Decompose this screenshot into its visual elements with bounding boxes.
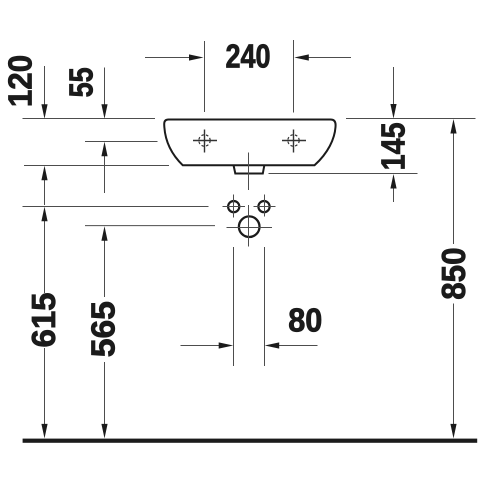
svg-text:240: 240 xyxy=(225,39,270,75)
dimension text 615 xyxy=(25,292,62,347)
drain hole crosshair xyxy=(227,205,273,247)
120 dimension stem lower with up arrow xyxy=(41,166,47,205)
dimension text 120 xyxy=(2,55,39,107)
basin outline (side view) xyxy=(164,120,335,166)
drain hole circle xyxy=(239,216,260,237)
565 dimension stem with down arrow at floor xyxy=(101,362,107,438)
565 dimension stem with up arrow xyxy=(101,226,107,297)
supply hole right circle xyxy=(258,201,269,212)
55 dimension stem upper with down arrow xyxy=(101,68,107,119)
850 dimension stem with up arrow at rim xyxy=(450,119,456,244)
80 extension line left xyxy=(233,247,235,366)
dimension text 565 xyxy=(86,301,123,357)
mounting hole left (crosshair + dashed circle) xyxy=(193,130,217,153)
reference line rim level right xyxy=(346,118,476,120)
svg-text:615: 615 xyxy=(25,292,62,347)
svg-text:120: 120 xyxy=(2,55,39,107)
drain spigot below basin xyxy=(234,166,265,174)
240 extension line right xyxy=(293,40,295,113)
dimension text 240 xyxy=(225,39,270,75)
dimension text 850 xyxy=(435,247,472,299)
55 dimension stem lower with up arrow xyxy=(101,142,107,193)
80 dimension line right with arrow xyxy=(265,342,318,348)
reference line supply holes level xyxy=(23,206,209,208)
svg-text:80: 80 xyxy=(288,302,322,339)
850 dimension stem with down arrow at floor xyxy=(450,304,456,439)
dimension text 55 xyxy=(64,67,100,97)
615 dimension stem with down arrow at floor xyxy=(41,348,47,438)
615 dimension stem with up arrow xyxy=(41,207,47,293)
floor line xyxy=(23,439,478,443)
120 dimension stem upper with down arrow xyxy=(41,66,47,119)
centerline through drain xyxy=(248,153,250,191)
80 extension line right xyxy=(264,247,266,366)
supply hole left crosshair xyxy=(223,195,246,218)
reference line drain bottom right xyxy=(269,173,418,175)
240 dimension line right with arrow xyxy=(294,54,351,60)
240 dimension line left with arrow xyxy=(145,54,204,60)
svg-text:55: 55 xyxy=(64,67,100,97)
svg-text:565: 565 xyxy=(86,301,123,357)
145 dimension stem upper with down arrow xyxy=(390,67,396,119)
reference line drain hole level xyxy=(85,225,215,227)
reference line basin bottom left xyxy=(24,165,169,167)
240 extension line left xyxy=(204,41,206,112)
supply hole left circle xyxy=(228,201,239,212)
80 dimension line left with arrow xyxy=(181,342,234,348)
reference line rim level left xyxy=(23,118,156,120)
145 dimension stem lower with up arrow xyxy=(390,174,396,202)
dimension text 80 xyxy=(288,302,322,339)
svg-text:850: 850 xyxy=(435,247,472,299)
reference line faucet hole level left xyxy=(85,141,158,143)
svg-text:145: 145 xyxy=(375,122,412,170)
dimension text 145 xyxy=(375,122,412,170)
mounting hole right (crosshair + dashed circle) xyxy=(282,130,306,153)
supply hole right crosshair xyxy=(254,195,276,217)
